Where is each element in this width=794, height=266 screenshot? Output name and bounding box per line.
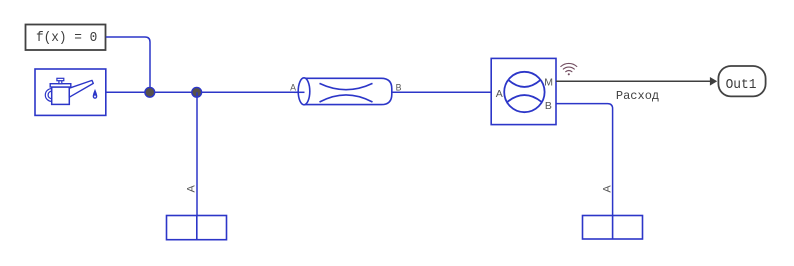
right tank block (reservoir) [583,216,643,240]
knob stem [59,81,62,84]
main wire oil block to pipe port A [106,91,305,93]
pipe left ellipse [298,78,310,105]
wire sensor B to right tank [556,104,613,216]
outport block Out1 [718,66,765,96]
sensor top arc [508,80,540,87]
sensor bottom arc [507,95,542,102]
wire junction 2 down to left tank [196,92,198,215]
pipe body [304,78,392,104]
oil drop highlight [94,96,96,98]
oil can lid [50,84,71,87]
pipe block (local restriction) [290,78,402,105]
oil can body [52,87,70,104]
solver block f(x)=0 [26,25,106,51]
svg-text:B: B [545,100,552,112]
svg-text:M: M [544,77,553,89]
oil can handle inner line [48,91,52,99]
venturi bottom curve [320,95,373,102]
svg-text:Out1: Out1 [726,77,757,93]
wire pipe B to sensor A [392,91,491,93]
svg-text:B: B [396,83,402,93]
svg-text:A: A [496,88,503,100]
wire stub into ellipse [294,91,305,93]
svg-text:Расход: Расход [616,89,659,103]
flow rate sensor block [491,58,556,124]
svg-text:A: A [601,185,613,193]
junction dot 1 [145,87,155,97]
left tank block (reservoir) [167,216,227,240]
oil can handle [45,89,52,102]
spout [69,80,93,97]
svg-text:A: A [290,83,296,93]
black signal wire sensor M to Out1 [556,80,710,82]
venturi top curve [320,83,373,89]
knob cap [57,78,64,80]
svg-text:A: A [185,184,197,192]
svg-text:f(x) = 0: f(x) = 0 [36,30,97,46]
logging wifi badge [561,63,577,75]
arrow head [710,77,717,86]
hydraulic fluid block (oil can) [35,69,106,115]
sensor circle [504,72,544,112]
oil drop [93,90,97,99]
wire solver to junction [106,37,150,92]
junction dot 2 [192,87,202,97]
